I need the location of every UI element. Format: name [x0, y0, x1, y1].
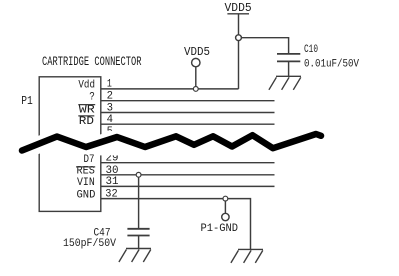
svg-text:C10: C10 [304, 44, 318, 56]
wire pin30 RES [101, 174, 275, 176]
svg-text:D7: D7 [84, 154, 95, 166]
junction node on pin1 wire [193, 87, 198, 92]
svg-text:P1-GND: P1-GND [201, 223, 239, 235]
ground (below C47) [119, 249, 151, 263]
svg-text:RES: RES [77, 166, 96, 178]
svg-text:P1: P1 [21, 95, 33, 108]
wire pin1 Vdd [101, 88, 239, 90]
svg-text:0.01uF/50V: 0.01uF/50V [304, 59, 359, 71]
ground (below C10) [269, 76, 301, 90]
break squiggle (wire break symbol) [22, 134, 321, 155]
svg-text:VIN: VIN [77, 177, 95, 189]
junction node on pin32 wire [223, 196, 228, 201]
svg-text:VDD5: VDD5 [184, 45, 210, 59]
terminal VDD5 (left) [184, 45, 210, 89]
svg-text:WR: WR [79, 104, 95, 116]
connector P1 box [39, 77, 101, 212]
svg-text:?: ? [89, 92, 95, 104]
svg-text:Vdd: Vdd [78, 80, 95, 92]
junction node VDD5 [236, 35, 242, 41]
wire pin3 WR [101, 112, 275, 114]
wire pin30 to C47 [138, 177, 140, 229]
svg-text:VDD5: VDD5 [225, 1, 252, 15]
wire pin2 [101, 100, 275, 102]
wire pin31 VIN [101, 185, 275, 187]
wire pin32 GND to ground [101, 199, 251, 250]
wire pin4 RD [101, 123, 275, 125]
svg-text:CARTRIDGE CONNECTOR: CARTRIDGE CONNECTOR [42, 54, 142, 69]
wire VDD5 node to C10 [239, 38, 289, 54]
terminal P1-GND [201, 201, 239, 235]
power symbol VDD5 (top) [225, 1, 252, 89]
svg-text:GND: GND [77, 189, 96, 201]
pin name WR (active low) [78, 104, 95, 116]
pin name RD (active low) [78, 116, 94, 128]
ground (pin32) [231, 249, 263, 263]
wire pin29 D7 [101, 162, 275, 164]
svg-text:RD: RD [79, 116, 95, 128]
pin name RES (active low) [76, 166, 95, 178]
svg-text:150pF/50V: 150pF/50V [63, 238, 116, 250]
capacitor C10 [277, 54, 300, 76]
capacitor C47 [127, 229, 149, 249]
junction node on pin30 wire [136, 172, 141, 177]
